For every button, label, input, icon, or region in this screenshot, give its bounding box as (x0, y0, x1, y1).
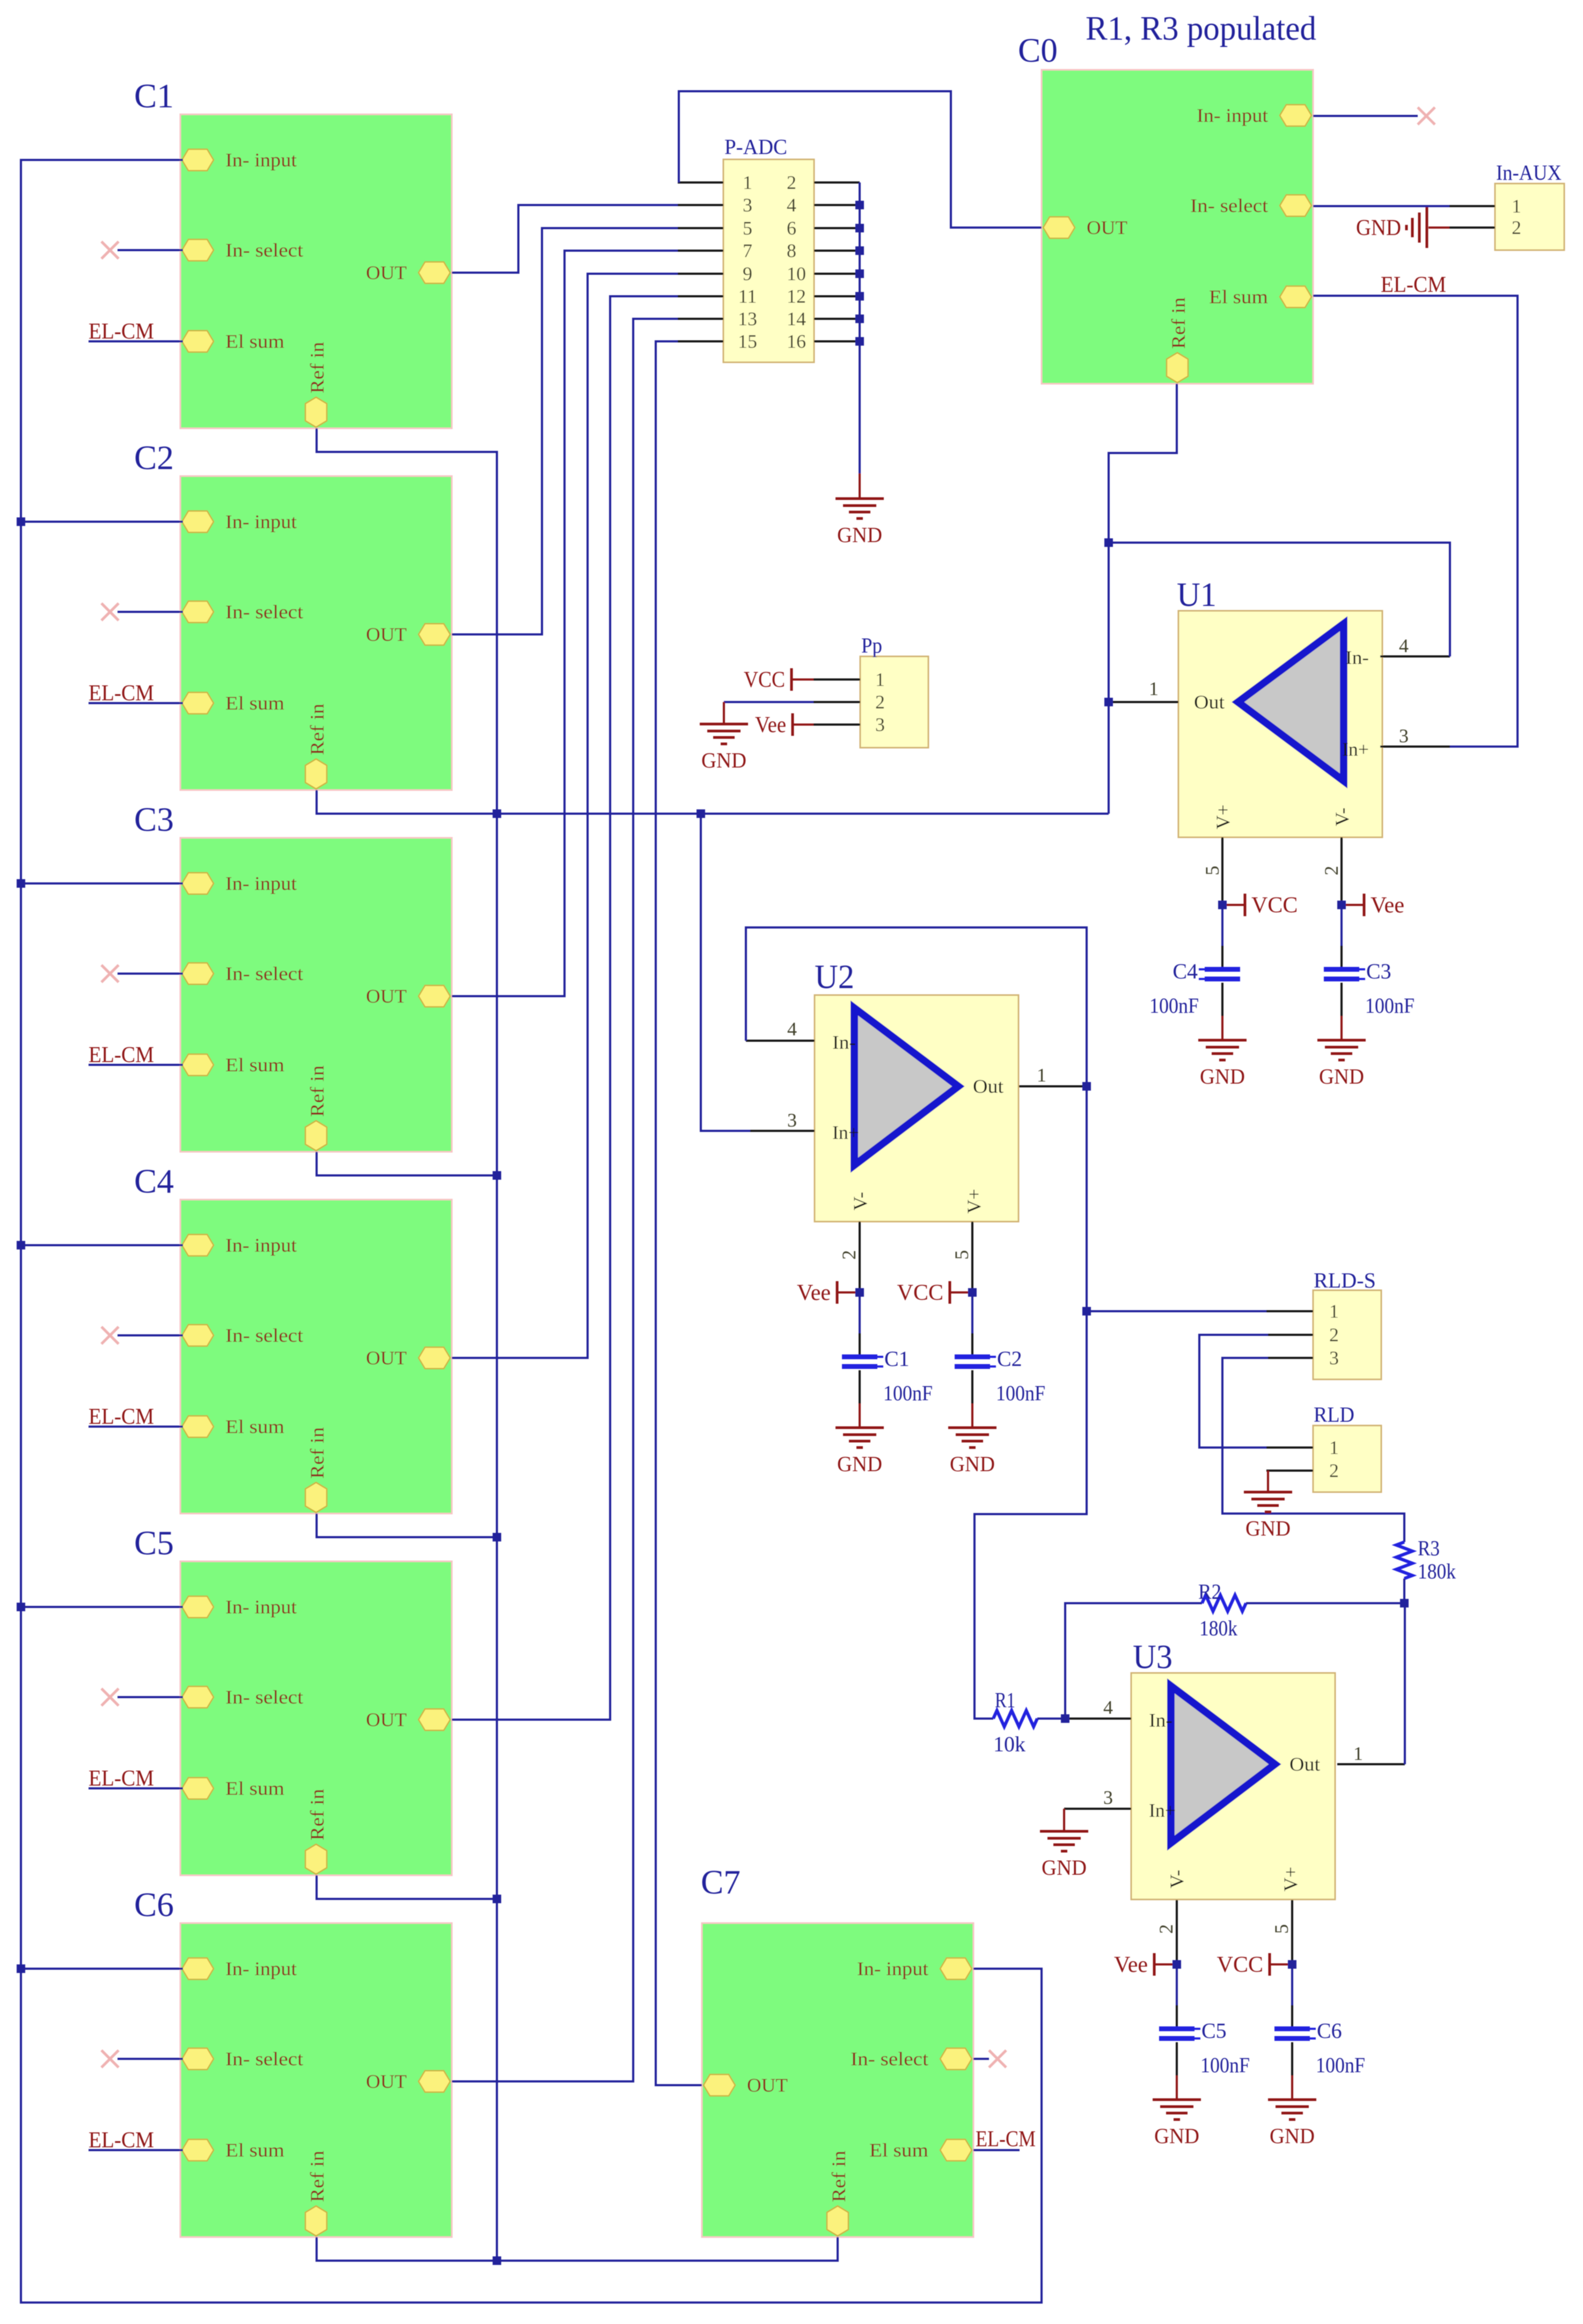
wire In- input tap C6 (21, 1968, 183, 1970)
no-connect X on C3 In- select (101, 965, 119, 982)
svg-text:In- select: In- select (225, 1325, 303, 1346)
svg-text:In- input: In- input (857, 1958, 928, 1979)
svg-text:1: 1 (1329, 1300, 1339, 1322)
svg-text:2: 2 (1321, 866, 1342, 875)
svg-text:Ref in: Ref in (306, 342, 328, 393)
svg-text:C3: C3 (1366, 959, 1391, 983)
svg-text:In-: In- (1345, 647, 1369, 668)
wire C7 OUT to P-ADC pin 15 (656, 341, 702, 2085)
power flag Vee at U1 pin 2 (1342, 893, 1404, 918)
junction dots on In-input bus (17, 517, 25, 1973)
wire C5 to ground (1176, 2042, 1178, 2075)
wire C4 OUT to P-ADC pin 9 (452, 274, 678, 1358)
svg-text:In- input: In- input (225, 1958, 297, 1979)
svg-text:11: 11 (738, 286, 757, 307)
junction dot U2 pin5 (968, 1288, 977, 1297)
capacitor C2 (955, 1333, 1045, 1405)
svg-text:Vee: Vee (1371, 893, 1404, 918)
svg-text:GND: GND (1042, 1855, 1087, 1880)
junction dot U2 output (1082, 1082, 1091, 1091)
svg-text:OUT: OUT (366, 262, 407, 283)
svg-text:GND: GND (1356, 216, 1401, 240)
svg-text:14: 14 (787, 308, 806, 330)
svg-text:C2: C2 (134, 439, 174, 477)
wire C1 to ground (859, 1370, 861, 1404)
svg-text:V-: V- (849, 1192, 871, 1211)
wire RLD-S pin2 to RLD pin1 (1199, 1335, 1268, 1448)
svg-text:V-: V- (1166, 1870, 1188, 1889)
no-connect X on C1 In- select (101, 242, 119, 259)
svg-text:C4: C4 (134, 1162, 174, 1200)
svg-text:In- input: In- input (225, 873, 297, 894)
svg-text:4: 4 (1399, 635, 1409, 656)
wire El sum stub C5 (EL-CM) (89, 1787, 183, 1789)
svg-text:El sum: El sum (225, 331, 284, 352)
svg-text:10k: 10k (993, 1732, 1025, 1756)
svg-text:VCC: VCC (897, 1281, 943, 1305)
capacitor C4 (1149, 946, 1240, 1018)
op-amp U2 (815, 995, 1018, 1222)
svg-text:180k: 180k (1418, 1559, 1456, 1583)
power flag VCC at U3 pin 5 (1217, 1953, 1292, 1977)
resistor R2 180k (1198, 1580, 1246, 1640)
no-connect X on C0 In- input (1418, 107, 1435, 125)
U2 pin lines and numbers (746, 1018, 1087, 1292)
svg-text:Ref in: Ref in (828, 2151, 849, 2202)
svg-text:3: 3 (1329, 1347, 1339, 1369)
wire C6 OUT to P-ADC pin 13 (452, 319, 678, 2081)
wire U1 feedback Out to In- (1109, 543, 1450, 656)
capacitor C1 (842, 1333, 933, 1405)
wire RLD pin2 to ground (1267, 1471, 1269, 1492)
svg-text:El sum: El sum (225, 1778, 284, 1799)
junction dot U1 pin2 (1337, 901, 1346, 909)
wire C2 OUT to P-ADC pin 5 (452, 228, 678, 634)
svg-text:100nF: 100nF (996, 1381, 1045, 1405)
svg-text:GND: GND (1270, 2124, 1315, 2148)
wire P-ADC right bus (even pins to GND) (859, 182, 861, 473)
svg-text:Out: Out (1194, 691, 1225, 713)
svg-text:El sum: El sum (225, 692, 284, 714)
no-connect X on C5 In- select (101, 1689, 119, 1706)
svg-text:2: 2 (838, 1250, 860, 1260)
svg-text:C1: C1 (884, 1347, 910, 1371)
svg-text:OUT: OUT (366, 1347, 407, 1369)
wire C0 In- select to In-AUX pin 1 (1313, 205, 1449, 207)
wire Pp pin 2 to GND (724, 701, 814, 703)
svg-text:OUT: OUT (1087, 217, 1127, 238)
svg-text:EL-CM: EL-CM (976, 2127, 1036, 2152)
component C0 (channel block) (1042, 70, 1313, 384)
svg-text:C6: C6 (1317, 2019, 1342, 2043)
svg-text:Vee: Vee (755, 713, 786, 737)
svg-text:2: 2 (1155, 1924, 1177, 1934)
svg-text:1: 1 (1037, 1064, 1046, 1086)
wire R3 bottom lead (1403, 1578, 1405, 1603)
svg-text:4: 4 (787, 194, 796, 216)
wire C2 to ground (971, 1370, 973, 1404)
svg-text:100nF: 100nF (1200, 2053, 1250, 2077)
svg-text:In- input: In- input (225, 149, 297, 171)
svg-text:2: 2 (875, 691, 885, 713)
svg-text:5: 5 (743, 217, 752, 239)
no-connect X on C6 In- select (101, 2050, 119, 2067)
ground at C2 (948, 1428, 996, 1476)
junction dot U1 pin5 (1218, 901, 1227, 909)
svg-text:Vee: Vee (1114, 1953, 1148, 1977)
svg-text:VCC: VCC (1251, 893, 1298, 918)
component C1 (channel block) (180, 114, 452, 428)
wire El sum stub C1 (EL-CM) (89, 340, 183, 342)
junction dots on P-ADC right bus (855, 201, 864, 346)
connector Pp (814, 633, 928, 748)
junction dot U1 output (1104, 698, 1113, 706)
capacitor C3 (1324, 946, 1415, 1018)
U1 pin lines and numbers (1109, 635, 1450, 905)
wire In- input tap C4 (21, 1244, 183, 1246)
svg-text:In+: In+ (1342, 739, 1369, 760)
svg-text:P-ADC: P-ADC (724, 135, 787, 159)
svg-text:GND: GND (1245, 1516, 1291, 1540)
svg-text:El sum: El sum (225, 1416, 284, 1437)
wire U2 feedback Out to In- (746, 927, 1087, 1086)
svg-text:In- input: In- input (1197, 105, 1268, 126)
svg-text:In-: In- (832, 1032, 856, 1053)
svg-text:2: 2 (1329, 1460, 1339, 1481)
svg-text:1: 1 (875, 669, 885, 690)
svg-text:12: 12 (787, 286, 806, 307)
svg-text:GND: GND (1154, 2124, 1199, 2148)
svg-text:Vee: Vee (797, 1281, 831, 1305)
svg-text:U2: U2 (815, 958, 854, 996)
wire U2 V+ node (971, 1292, 973, 1334)
svg-text:R1: R1 (995, 1688, 1015, 1712)
component C2 (channel block) (180, 476, 452, 790)
wire El sum stub C6 (EL-CM) (89, 2149, 183, 2151)
ground at U3 In+ (1040, 1831, 1088, 1880)
svg-text:9: 9 (743, 263, 752, 284)
svg-text:Out: Out (1289, 1753, 1320, 1775)
wire C3 OUT to P-ADC pin 7 (452, 251, 678, 996)
svg-text:16: 16 (787, 331, 806, 352)
svg-text:EL-CM: EL-CM (89, 1405, 154, 1429)
svg-text:1: 1 (743, 172, 752, 193)
svg-text:10: 10 (787, 263, 806, 284)
svg-text:C4: C4 (1172, 959, 1198, 983)
svg-text:U3: U3 (1133, 1638, 1172, 1676)
power flag Vee at U2 pin 2 (797, 1281, 860, 1305)
svg-text:In- input: In- input (225, 511, 297, 532)
op-amp U1 (1178, 611, 1382, 837)
wire C1 OUT to P-ADC pin 3 (452, 205, 678, 273)
svg-text:C6: C6 (134, 1885, 174, 1924)
wire U2 Out down to R1 (974, 1086, 1087, 1719)
svg-text:In-: In- (1149, 1709, 1172, 1731)
wire C6-C7 Ref bottom link (317, 2237, 838, 2261)
svg-text:V+: V+ (1212, 805, 1234, 829)
svg-text:El sum: El sum (225, 2139, 284, 2161)
svg-text:In- select: In- select (225, 601, 303, 623)
wire El sum stub C3 (EL-CM) (89, 1064, 183, 1066)
svg-text:In- input: In- input (225, 1234, 297, 1256)
wire C0 El sum EL-CM to U1 In+ (1313, 296, 1518, 747)
ground at RLD (1244, 1492, 1292, 1540)
svg-text:Ref in: Ref in (306, 1789, 328, 1840)
svg-text:3: 3 (787, 1109, 797, 1131)
connector RLD-S (1266, 1268, 1381, 1379)
wire Ref-in chain vertical (C1 Ref in to bottom) (317, 428, 497, 2261)
svg-text:In- select: In- select (851, 2048, 928, 2070)
svg-text:EL-CM: EL-CM (89, 681, 154, 706)
wire In- select stub C2 (118, 611, 183, 613)
svg-text:3: 3 (875, 714, 885, 735)
op-amp U3 (1131, 1673, 1335, 1899)
ground at C6 (1268, 2100, 1316, 2148)
svg-text:El sum: El sum (869, 2139, 928, 2161)
wire In- input tap C3 (21, 882, 183, 885)
wire In- select stub C3 (118, 973, 183, 975)
svg-text:In- select: In- select (225, 239, 303, 261)
component C6 (channel block) (180, 1923, 452, 2237)
svg-text:In- select: In- select (225, 2048, 303, 2070)
svg-text:El sum: El sum (225, 1054, 284, 1076)
svg-text:5: 5 (951, 1250, 972, 1260)
svg-text:5: 5 (1271, 1924, 1292, 1934)
wire In- select stub C5 (118, 1696, 183, 1698)
svg-text:In- select: In- select (1190, 195, 1268, 216)
svg-text:GND: GND (1200, 1064, 1245, 1088)
junction dots on Ref chain (493, 809, 705, 2265)
svg-text:OUT: OUT (366, 985, 407, 1007)
svg-text:In-AUX: In-AUX (1496, 160, 1562, 185)
power flag Vee at Pp pin 3 (755, 713, 814, 737)
wire C3 to ground (1340, 983, 1343, 1016)
P-ADC left pin lines (678, 182, 723, 341)
wire C3 Ref tap (317, 1152, 497, 1175)
wire U2 V- node (859, 1292, 861, 1334)
wire C0 In- input stub (1313, 115, 1418, 117)
svg-text:In- select: In- select (225, 963, 303, 984)
junction dot U2 pin2 (855, 1288, 864, 1297)
svg-text:1: 1 (1329, 1437, 1339, 1458)
wire U3 V+ node (1291, 1964, 1293, 2006)
ground at C4 (1198, 1040, 1247, 1088)
wire In- input tap C2 (21, 521, 183, 523)
wire C7 El sum stub (EL-CM) (973, 2149, 1020, 2151)
wire U3 Out up to R2/R3 node (1404, 1603, 1406, 1764)
svg-text:RLD: RLD (1314, 1402, 1354, 1427)
svg-text:Ref in: Ref in (1168, 297, 1189, 349)
svg-text:U1: U1 (1177, 575, 1216, 613)
svg-text:5: 5 (1201, 866, 1223, 875)
svg-text:EL-CM: EL-CM (89, 1766, 154, 1791)
capacitor C5 (1159, 2005, 1250, 2077)
svg-text:100nF: 100nF (1149, 993, 1199, 1018)
wire U3 V- node (1176, 1964, 1178, 2006)
power flag VCC at U1 pin 5 (1222, 893, 1298, 918)
svg-text:1: 1 (1353, 1743, 1363, 1764)
wire C6 to ground (1291, 2042, 1293, 2075)
svg-text:13: 13 (738, 308, 757, 330)
svg-text:15: 15 (738, 331, 757, 352)
svg-text:Pp: Pp (861, 633, 882, 657)
svg-text:VCC: VCC (744, 668, 785, 692)
svg-text:In+: In+ (832, 1122, 859, 1143)
svg-text:EL-CM: EL-CM (89, 1043, 154, 1068)
svg-text:R3: R3 (1418, 1536, 1440, 1560)
svg-text:GND: GND (1319, 1064, 1364, 1088)
ground at P-ADC (836, 499, 884, 547)
svg-text:EL-CM: EL-CM (89, 2128, 154, 2153)
svg-text:VCC: VCC (1217, 1953, 1263, 1977)
wire C0 OUT to P-ADC pin 1 (679, 91, 1042, 228)
wire C2 Ref tap to U1/C0 net (317, 790, 1109, 814)
wire In- select stub C4 (118, 1334, 183, 1336)
svg-text:4: 4 (1103, 1697, 1113, 1718)
svg-text:GND: GND (837, 523, 882, 547)
ground at Pp (700, 724, 748, 772)
junction dot R2/R3/U3-out (1400, 1599, 1409, 1607)
svg-text:6: 6 (787, 217, 796, 239)
ground at C1 (836, 1428, 884, 1476)
wire U1 V- node (1340, 905, 1343, 947)
wire C7 In- select stub (973, 2058, 989, 2060)
wire C5 OUT to P-ADC pin 11 (452, 296, 678, 1720)
svg-text:2: 2 (1329, 1324, 1339, 1346)
wire RLD-S pin1 to U2 output net (1087, 1310, 1266, 1312)
component C3 (channel block) (180, 838, 452, 1152)
connector P-ADC (723, 135, 814, 362)
svg-text:180k: 180k (1199, 1616, 1237, 1640)
svg-text:C1: C1 (134, 77, 174, 115)
svg-text:3: 3 (1103, 1787, 1113, 1808)
P-ADC right pin lines (814, 182, 860, 341)
svg-text:Ref in: Ref in (306, 2151, 328, 2202)
svg-text:V+: V+ (963, 1189, 985, 1214)
svg-text:V-: V- (1331, 808, 1353, 827)
wire In- select stub C1 (118, 249, 183, 251)
component C4 (channel block) (180, 1200, 452, 1514)
svg-text:C3: C3 (134, 800, 174, 838)
svg-text:R1, R3 populated: R1, R3 populated (1086, 9, 1316, 47)
svg-text:In- select: In- select (225, 1686, 303, 1708)
wire C5 Ref tap (317, 1875, 497, 1899)
power flag VCC at U2 pin 5 (897, 1281, 972, 1305)
wire R2 to R3/U3-out node (1246, 1602, 1404, 1604)
power flag VCC at Pp pin 1 (744, 668, 814, 692)
ground at C5 (1153, 2100, 1201, 2148)
svg-text:GND: GND (837, 1452, 882, 1476)
svg-text:C5: C5 (134, 1524, 174, 1562)
svg-text:Ref in: Ref in (306, 1065, 328, 1117)
svg-text:C5: C5 (1201, 2019, 1227, 2043)
ground symbol at In-AUX pin 2 (rotated) (1356, 207, 1449, 248)
junction dot RLD-S pin1 branch (1082, 1307, 1091, 1316)
svg-text:1: 1 (1512, 195, 1521, 217)
component C5 (channel block) (180, 1561, 452, 1875)
connector In-AUX (1449, 160, 1564, 250)
svg-text:El sum: El sum (1209, 286, 1268, 308)
junction dot U1 feedback (1104, 538, 1113, 547)
wire C0 Ref in down to U1 output node (1109, 384, 1177, 814)
junction dot U3 pin5 (1288, 1960, 1296, 1969)
ground at C3 (1317, 1040, 1366, 1088)
svg-text:Ref in: Ref in (306, 1427, 328, 1479)
resistor R3 180k (1396, 1536, 1456, 1583)
svg-text:2: 2 (787, 172, 796, 193)
svg-text:OUT: OUT (366, 1709, 407, 1730)
wire C4 Ref tap (317, 1514, 497, 1537)
svg-text:7: 7 (743, 240, 752, 261)
svg-text:EL-CM: EL-CM (89, 319, 154, 344)
svg-text:In- input: In- input (225, 1596, 297, 1618)
svg-text:R2: R2 (1198, 1580, 1221, 1604)
no-connect X on C4 In- select (101, 1327, 119, 1344)
resistor R1 10k (993, 1688, 1037, 1756)
capacitor C6 (1274, 2005, 1365, 2077)
svg-text:GND: GND (950, 1452, 995, 1476)
svg-text:OUT: OUT (366, 624, 407, 645)
wire U3 In+ ground stub (1063, 1809, 1065, 1831)
svg-text:2: 2 (1512, 217, 1521, 238)
wire In- select stub C6 (118, 2058, 183, 2060)
wire P-ADC bus GND stub (859, 473, 861, 499)
no-connect X on C7 In- select (989, 2050, 1006, 2067)
wire R2 branch up from R1 node (1065, 1603, 1202, 1719)
svg-text:C2: C2 (997, 1347, 1022, 1371)
svg-text:100nF: 100nF (1365, 993, 1415, 1018)
svg-text:In+: In+ (1149, 1800, 1176, 1821)
svg-text:100nF: 100nF (883, 1381, 933, 1405)
no-connect X on C2 In- select (101, 603, 119, 620)
svg-text:4: 4 (787, 1018, 797, 1040)
svg-text:1: 1 (1149, 678, 1159, 699)
svg-text:100nF: 100nF (1316, 2053, 1365, 2077)
svg-text:OUT: OUT (366, 2071, 407, 2092)
svg-text:8: 8 (787, 240, 796, 261)
svg-text:V+: V+ (1280, 1867, 1301, 1891)
svg-text:Ref in: Ref in (306, 704, 328, 755)
junction dot U3 pin2 (1172, 1960, 1181, 1969)
svg-text:RLD-S: RLD-S (1314, 1268, 1376, 1292)
svg-text:GND: GND (701, 748, 746, 772)
wire In-input bus (C1-C7 In- input net) (21, 160, 1042, 2303)
svg-text:3: 3 (1399, 725, 1409, 747)
connector RLD (1266, 1402, 1381, 1492)
svg-text:OUT: OUT (747, 2074, 788, 2096)
wire U2 In+ branch from Ref net (701, 814, 750, 1131)
wire U1 V+ node (1221, 905, 1223, 947)
svg-text:EL-CM: EL-CM (1381, 273, 1446, 297)
svg-text:C7: C7 (701, 1863, 741, 1901)
junction dot R1/R2/U3 (1061, 1714, 1069, 1723)
wire C4 to ground (1221, 983, 1223, 1016)
wire El sum stub C2 (EL-CM) (89, 702, 183, 704)
power flag Vee at U3 pin 2 (1114, 1953, 1177, 1977)
svg-text:C0: C0 (1018, 31, 1058, 69)
wire RLD-S pin3 to R3 (1222, 1358, 1404, 1542)
svg-text:Out: Out (973, 1076, 1003, 1097)
wire R1 to U3 In- junction (1037, 1718, 1065, 1720)
component C7 (channel block) (702, 1923, 973, 2237)
wire El sum stub C4 (EL-CM) (89, 1426, 183, 1428)
U3 pin lines and numbers (1064, 1697, 1405, 1964)
svg-text:3: 3 (743, 194, 752, 216)
wire In- input tap C5 (21, 1606, 183, 1608)
